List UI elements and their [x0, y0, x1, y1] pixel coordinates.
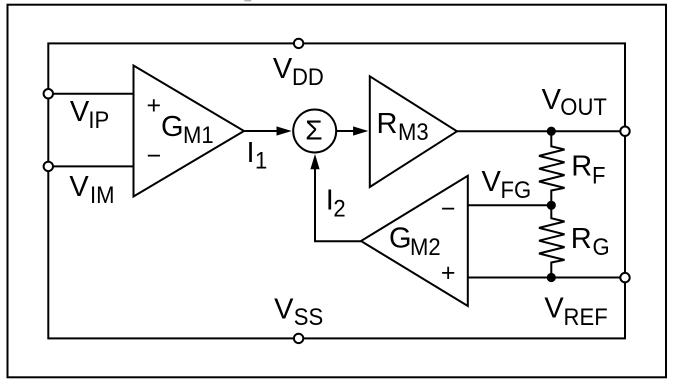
arrowhead into RM3 [353, 126, 368, 135]
svg-text:V: V [542, 84, 562, 116]
svg-text:M1: M1 [183, 121, 214, 148]
wire RM3 output to VOUT [457, 130, 625, 132]
svg-text:F: F [592, 161, 605, 188]
svg-text:REF: REF [564, 303, 608, 330]
svg-text:V: V [274, 293, 294, 325]
arrowhead I1 into summer [277, 126, 292, 135]
pin circle VIP [44, 89, 53, 98]
svg-text:2: 2 [333, 195, 345, 222]
wire GM2 minus input (VFG node) [468, 204, 552, 206]
node dot VREF [547, 273, 556, 282]
wire V_IP input [48, 93, 134, 95]
svg-text:I: I [247, 137, 255, 169]
svg-text:−: − [441, 195, 456, 223]
wire GM1 output to summer [244, 130, 279, 132]
pin circle VSS [294, 334, 303, 343]
svg-text:R: R [377, 108, 398, 140]
svg-text:Σ: Σ [305, 115, 322, 146]
wire V_IM input [48, 165, 134, 167]
svg-text:V: V [273, 53, 293, 85]
svg-text:V: V [482, 166, 502, 198]
svg-text:OUT: OUT [560, 93, 607, 120]
svg-text:−: − [146, 142, 161, 170]
svg-text:1: 1 [255, 147, 267, 174]
svg-text:R: R [571, 223, 592, 255]
svg-text:IM: IM [90, 181, 115, 208]
svg-text:R: R [571, 150, 592, 182]
svg-text:+: + [441, 259, 456, 287]
svg-text:G: G [593, 233, 610, 260]
resistor RF [539, 131, 565, 205]
pin circle VDD [294, 39, 303, 48]
svg-text:G: G [161, 111, 184, 143]
resistor RG [539, 205, 565, 277]
wire I2 vertical from GM2 output [315, 167, 361, 241]
svg-text:FG: FG [500, 176, 531, 203]
node dot VFG [547, 201, 556, 210]
arrowhead I2 into summer [310, 154, 319, 169]
svg-text:V: V [70, 96, 90, 128]
wire GM2 plus input to VREF [468, 277, 625, 279]
amplifier RM3 triangle [370, 76, 457, 187]
op-amp GM1 triangle [134, 66, 245, 197]
svg-text:M3: M3 [398, 118, 429, 145]
pin circle VIM [44, 162, 53, 171]
svg-text:IP: IP [88, 106, 109, 133]
svg-text:G: G [389, 223, 412, 255]
node dot VOUT [547, 127, 556, 136]
svg-text:DD: DD [292, 63, 324, 90]
summing junction circle [293, 110, 336, 153]
pin circle VREF [620, 273, 629, 282]
wire summer to RM3 [336, 130, 356, 132]
svg-text:V: V [69, 171, 89, 203]
package boundary rect [48, 43, 625, 338]
svg-text:SS: SS [294, 303, 323, 330]
svg-text:V: V [544, 293, 564, 325]
op-amp GM2 triangle [361, 176, 468, 306]
svg-text:+: + [146, 91, 161, 119]
svg-text:M2: M2 [410, 233, 441, 260]
pin circle VOUT [620, 127, 629, 136]
artifact glyph fragment top edge [244, 0, 251, 1]
